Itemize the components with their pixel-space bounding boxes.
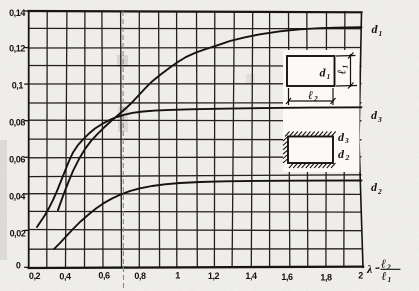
dimension l1 (right of inset) [336, 53, 357, 89]
svg-text:0: 0 [16, 261, 21, 271]
y-axis tick marks [24, 11, 29, 267]
dimension l2 (bottom of inset) [286, 88, 336, 105]
svg-text:1,4: 1,4 [245, 271, 257, 281]
svg-text:1,2: 1,2 [208, 271, 220, 281]
svg-text:1: 1 [327, 72, 331, 81]
grid lines [29, 11, 362, 267]
svg-text:1: 1 [341, 65, 350, 69]
svg-text:1,8: 1,8 [320, 273, 332, 283]
svg-text:0,06: 0,06 [9, 155, 25, 165]
svg-text:ℓ: ℓ [308, 88, 313, 102]
svg-text:3: 3 [344, 136, 349, 145]
svg-text:2: 2 [386, 263, 391, 272]
svg-text:1: 1 [388, 275, 392, 284]
svg-text:1: 1 [175, 271, 180, 281]
scan smudges [117, 55, 128, 67]
svg-text:0,4: 0,4 [59, 272, 71, 282]
svg-text:ℓ: ℓ [382, 269, 387, 283]
svg-text:d: d [338, 147, 345, 161]
svg-text:0,2: 0,2 [29, 271, 41, 281]
svg-text:1,6: 1,6 [281, 272, 293, 282]
x axis labels [29, 271, 363, 283]
svg-text:0,12: 0,12 [9, 44, 25, 54]
curve d3 [37, 107, 362, 227]
svg-text:3: 3 [377, 115, 382, 124]
curve d2 [54, 181, 362, 250]
svg-text:0,6: 0,6 [98, 271, 110, 281]
white patch under insets (erased grid) [283, 50, 360, 172]
x axis title: lambda = l2/l1 [366, 257, 401, 285]
curve d1 [58, 27, 362, 210]
svg-text:λ: λ [366, 262, 373, 276]
svg-text:d: d [338, 130, 345, 144]
svg-text:2: 2 [377, 187, 382, 196]
inset: hatched rectangle duct [288, 137, 333, 164]
svg-text:1: 1 [379, 29, 383, 38]
svg-text:0,04: 0,04 [9, 192, 25, 202]
y axis labels [9, 8, 26, 271]
svg-text:ℓ: ℓ [335, 69, 349, 74]
svg-text:0,08: 0,08 [9, 118, 25, 128]
hatching [283, 132, 336, 169]
svg-text:2: 2 [345, 153, 350, 162]
svg-text:2: 2 [313, 94, 318, 103]
svg-text:2: 2 [358, 271, 363, 281]
inset: plain rectangle duct [287, 56, 335, 86]
label l1 (rotated) [335, 65, 350, 75]
svg-text:d: d [372, 22, 379, 36]
svg-text:d: d [371, 108, 378, 122]
chart border: bottom axis [29, 267, 363, 268]
svg-text:0,8: 0,8 [134, 271, 146, 281]
dashed crease line at lambda=0.7 [122, 11, 125, 288]
svg-text:d: d [320, 66, 327, 80]
svg-text:0,14: 0,14 [9, 8, 25, 18]
svg-text:0,02: 0,02 [10, 229, 26, 239]
chart border: left axis [29, 11, 363, 268]
svg-text:0,1: 0,1 [12, 81, 24, 91]
chart border: top [29, 11, 362, 12]
chart border: right [359, 12, 363, 267]
svg-text:d: d [371, 180, 378, 194]
